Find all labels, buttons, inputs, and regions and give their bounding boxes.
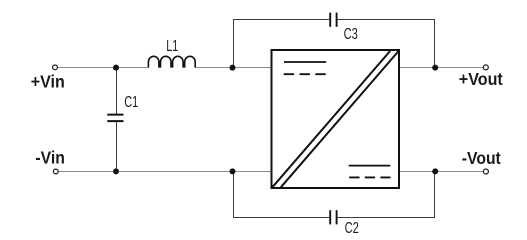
wire C2 branch: from C2 across bottom rail and up to node F — [338, 172, 435, 218]
wire +Vin terminal to node A — [58, 67, 116, 69]
converter U1 DC symbol (input side) solid bar — [284, 61, 326, 63]
wire node A to inductor L1 — [116, 67, 148, 69]
converter U1 DC symbol (output side) solid bar — [349, 165, 391, 167]
converter U1 isolation diagonal 2 — [281, 51, 399, 187]
svg-text:C1: C1 — [124, 94, 138, 111]
converter U1 body — [272, 50, 400, 188]
converter U1 DC symbol (input side) dashed bar — [284, 73, 326, 75]
capacitor C3 — [330, 13, 336, 27]
wire C3 branch: from C3 across top rail and down to node C — [338, 20, 435, 68]
terminal +Vin — [53, 65, 58, 70]
wire node D to node E — [116, 171, 233, 173]
svg-text:+Vout: +Vout — [459, 69, 503, 89]
wire node F to -Vout terminal — [435, 171, 483, 173]
svg-text:-Vout: -Vout — [462, 148, 501, 168]
wire converter output + to node C — [399, 67, 435, 69]
terminal -Vout — [483, 169, 488, 174]
junction node B — [230, 65, 236, 71]
wire node C to +Vout terminal — [435, 67, 483, 69]
svg-text:-Vin: -Vin — [35, 147, 65, 167]
svg-text:C2: C2 — [345, 220, 359, 237]
wire C2 branch: drop from node E to bottom rail and across to C2 — [234, 172, 330, 218]
wire converter output - to node F — [399, 171, 435, 173]
svg-text:L1: L1 — [166, 38, 178, 55]
wire node E to converter input - — [233, 171, 272, 173]
junction node F — [432, 168, 438, 174]
converter U1 isolation diagonal 1 — [272, 51, 390, 187]
svg-text:+Vin: +Vin — [31, 72, 65, 92]
terminal -Vin — [53, 169, 58, 174]
wire -Vin terminal to node D — [59, 171, 117, 173]
capacitor C2 — [330, 210, 336, 224]
wire node B to converter input + — [233, 67, 272, 69]
wire inductor L1 to node B — [195, 67, 232, 69]
junction node A — [113, 65, 119, 71]
svg-text:C3: C3 — [344, 26, 358, 43]
terminal +Vout — [483, 65, 488, 70]
converter U1 DC symbol (output side) dashed bar — [349, 176, 390, 178]
junction node D — [113, 168, 119, 174]
junction node C — [432, 65, 438, 71]
wire C3 branch: riser from node B to top rail and across to C3 — [234, 20, 330, 68]
junction node E — [230, 168, 236, 174]
inductor L1 — [148, 56, 195, 67]
capacitor C1 — [107, 69, 123, 170]
